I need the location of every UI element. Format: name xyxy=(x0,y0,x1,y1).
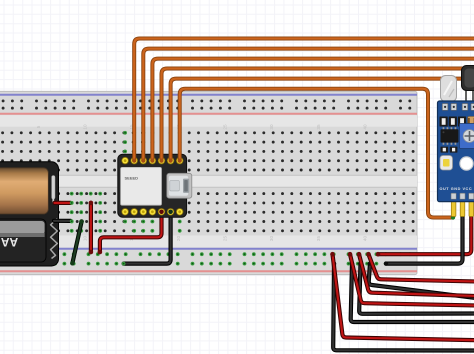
breadboard main holes xyxy=(1,131,414,232)
red jumper C: bottom rail to off-screen right xyxy=(359,254,474,296)
svg-text:35: 35 xyxy=(316,124,321,130)
red jumper A: bottom rail to off-screen right xyxy=(333,254,474,340)
connected holes around microcontroller xyxy=(123,131,181,233)
svg-text:30: 30 xyxy=(269,124,274,130)
black jumper B: bottom rail to off-screen right xyxy=(351,264,474,322)
clear LED on U2 xyxy=(441,76,457,108)
small resistors on U2 xyxy=(441,147,458,153)
svg-text:20: 20 xyxy=(176,236,181,242)
svg-text:10: 10 xyxy=(83,236,88,242)
top power rail holes xyxy=(2,99,412,109)
AA battery (bottom, in holder) xyxy=(0,219,46,262)
black jumper A: bottom rail to off-screen right xyxy=(333,264,474,351)
U2 silkscreen labels xyxy=(440,146,474,191)
green jumper wire: row i to bottom rail xyxy=(72,222,81,264)
micro-USB connector on U1 xyxy=(167,173,192,198)
orange wire 1: U1 top pin 2 to off-screen right xyxy=(134,39,474,161)
svg-text:SEEED: SEEED xyxy=(125,176,139,181)
breadboard column labels xyxy=(36,124,368,241)
orange wire 5: U1 top pin 6 to off-screen right xyxy=(171,79,474,161)
svg-text:25: 25 xyxy=(223,124,228,130)
svg-text:30: 30 xyxy=(269,236,274,242)
mounting hole on U2 xyxy=(460,157,473,170)
U1 header pins xyxy=(121,157,183,216)
battery holder spring contact (-) xyxy=(51,219,58,259)
svg-text:40: 40 xyxy=(363,236,368,242)
black jumper C: bottom rail to off-screen right xyxy=(359,264,474,314)
black wire: XIAO GND pin to bottom rail xyxy=(124,212,171,264)
sensor module U2 board xyxy=(438,101,474,202)
black wire: sensor GND to bottom rail xyxy=(386,213,463,264)
svg-text:35: 35 xyxy=(316,236,321,242)
battery holder silver contact (+) xyxy=(52,176,55,200)
connected holes near battery wires xyxy=(70,192,102,233)
top power rail red line xyxy=(0,113,417,115)
bottom power rail holes (connected nets, green) xyxy=(1,252,411,265)
red wire: XIAO 5V pin to bottom rail xyxy=(100,212,162,252)
orange wire 6: U1 top pin 7 to sensor OUT pin xyxy=(180,89,452,218)
red wire: sensor VCC to bottom rail xyxy=(378,213,471,255)
red wire: battery + to breadboard xyxy=(55,201,71,205)
red wire cap on U1 bottom pin 5 xyxy=(159,210,164,215)
battery holder BT1 xyxy=(0,162,59,266)
orange wire 4: U1 top pin 5 to off-screen right xyxy=(162,69,474,161)
svg-text:10: 10 xyxy=(83,124,88,130)
svg-text:5: 5 xyxy=(36,125,41,128)
comparator IC on U2 xyxy=(441,127,459,145)
orange wire 3: U1 top pin 4 to off-screen right xyxy=(152,59,474,161)
black jumper D: bottom rail to off-screen right xyxy=(369,264,474,298)
top power rail blue line xyxy=(0,94,417,96)
bottom power rail red line xyxy=(0,270,417,272)
microcontroller U1 (Seeed XIAO) xyxy=(118,154,187,217)
svg-text:OUT GND VCC: OUT GND VCC xyxy=(440,187,473,191)
black wire: battery - to breadboard xyxy=(54,219,71,223)
red jumper B: bottom rail to off-screen right xyxy=(350,254,474,305)
svg-text:AA: AA xyxy=(1,235,19,249)
red jumper D: bottom rail to off-screen right xyxy=(369,254,474,281)
bottom power rail blue line xyxy=(0,248,417,250)
black wire cap on U1 bottom pin 6 xyxy=(168,210,173,215)
svg-text:25: 25 xyxy=(223,236,228,242)
indicator LED on U2 xyxy=(440,156,453,171)
svg-text:40: 40 xyxy=(363,124,368,130)
U2 bottom solder pads xyxy=(451,193,474,199)
red jumper wire: row g to bottom rail xyxy=(89,203,93,252)
electrolytic capacitor on U2 xyxy=(462,66,474,106)
breadboard xyxy=(0,91,417,274)
sensor module U2 pins xyxy=(451,201,473,217)
orange wire 2: U1 top pin 3 to off-screen right xyxy=(143,49,474,161)
trim potentiometer on U2 xyxy=(460,124,474,149)
